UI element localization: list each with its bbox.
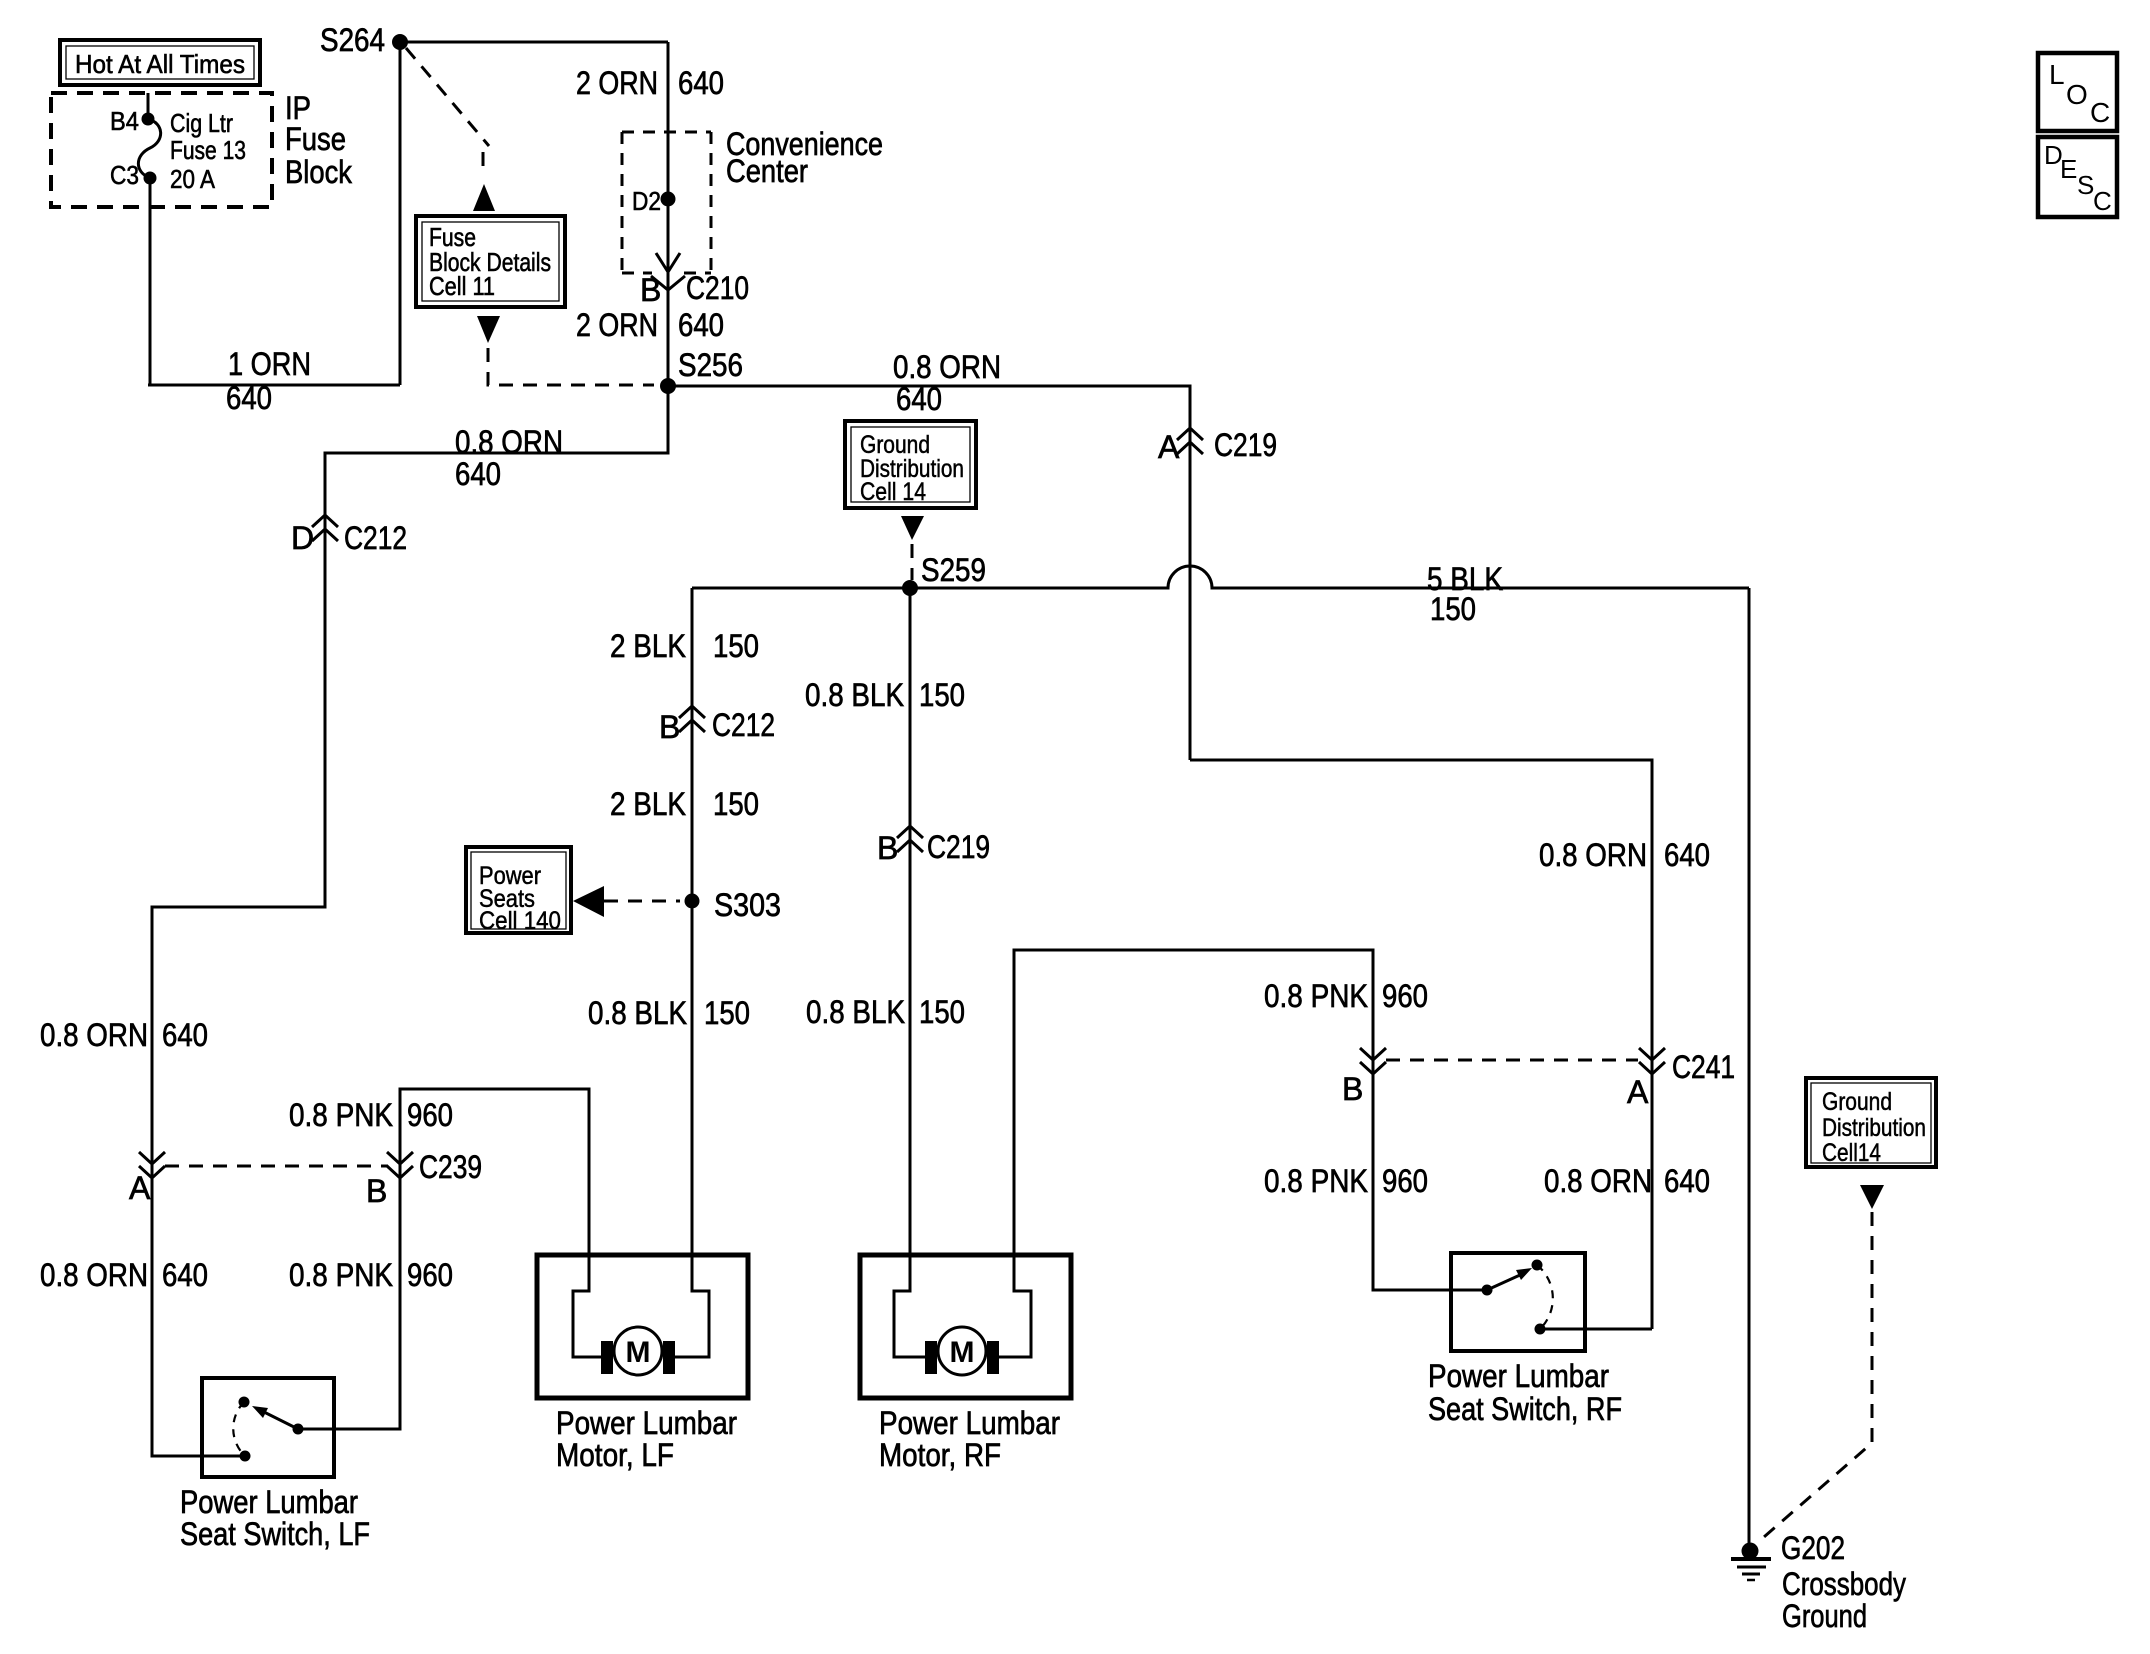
switch RF upper contact: [1532, 1260, 1543, 1271]
svg-text:Fuse 13: Fuse 13: [170, 135, 246, 165]
label Power Lumbar Motor, LF: [556, 1405, 737, 1473]
wire 1 ORN 640 horizontal run: [148, 384, 400, 387]
svg-text:C219: C219: [927, 829, 990, 865]
svg-text:960: 960: [407, 1097, 453, 1133]
label 0.8 ORN 640 (below C241 A): [1544, 1163, 1710, 1199]
svg-text:0.8 ORN: 0.8 ORN: [40, 1017, 148, 1053]
svg-text:Power Lumbar: Power Lumbar: [556, 1405, 737, 1441]
wire 0.8 BLK from S259 down to C219 B: [909, 588, 912, 854]
Power Lumbar Motor RF box: [860, 1255, 1071, 1398]
svg-text:B: B: [877, 830, 898, 866]
label B C219: [877, 829, 990, 866]
LOC legend box: [2038, 53, 2117, 131]
DESC legend box: [2038, 137, 2117, 217]
fuse F13 value label: Cig Ltr Fuse 13 20 A: [170, 108, 246, 194]
svg-text:150: 150: [704, 995, 750, 1031]
dashed reference from S264 toward Fuse Block Details: [406, 48, 489, 146]
svg-text:0.8 ORN: 0.8 ORN: [40, 1257, 148, 1293]
svg-text:B: B: [1342, 1071, 1363, 1107]
connector C241 cavity A chevrons: [1639, 1048, 1665, 1074]
wire 5 BLK 150 with hop over C219 drop: [692, 566, 1749, 588]
wire S264 to top of 2 ORN drop: [400, 41, 668, 44]
motor RF armature circle M: [938, 1327, 986, 1375]
svg-text:Fuse: Fuse: [285, 121, 346, 157]
node C3: [144, 172, 157, 185]
svg-text:0.8 PNK: 0.8 PNK: [1264, 978, 1368, 1014]
svg-text:M: M: [950, 1336, 975, 1369]
svg-text:640: 640: [678, 65, 724, 101]
svg-text:D2: D2: [632, 186, 661, 216]
motor LF right lead bracket: [675, 1255, 709, 1357]
Ground Distribution Cell14 box (right): [1806, 1078, 1936, 1167]
svg-text:0.8 ORN: 0.8 ORN: [1539, 837, 1647, 873]
wire up to S264: [399, 42, 402, 385]
svg-text:C212: C212: [712, 707, 775, 743]
switch LF lower contact: [240, 1451, 251, 1462]
svg-text:C241: C241: [1672, 1049, 1735, 1085]
Ground Distribution Cell 14 box: [845, 421, 976, 508]
fuse F13 element (S-curve): [138, 119, 160, 178]
svg-text:150: 150: [713, 786, 759, 822]
dashed reference to G202: [1757, 1212, 1872, 1543]
node S256: [660, 378, 676, 394]
svg-text:150: 150: [1430, 591, 1476, 627]
switch RF dashed throw arc: [1537, 1265, 1553, 1329]
svg-text:S259: S259: [921, 552, 986, 588]
wire 0.8 ORN below C239 A to switch LF: [152, 1152, 245, 1456]
wire from C3 down to 1 ORN run: [149, 178, 152, 385]
svg-text:640: 640: [226, 380, 272, 416]
arrow down from Ground Distribution Cell14: [1860, 1185, 1884, 1209]
wire from C212 D down, left, down to C239 A: [152, 543, 325, 1178]
label 0.8 PNK 960 (lower right): [1264, 1163, 1428, 1199]
dashed reference from S303 to Power Seats box: [604, 900, 680, 903]
label 2 ORN 640 (lower): [576, 307, 724, 343]
svg-text:B4: B4: [110, 106, 139, 136]
svg-text:150: 150: [919, 994, 965, 1030]
node S264: [392, 34, 408, 50]
arrow left into Power Seats box: [573, 886, 604, 917]
svg-text:S256: S256: [678, 347, 743, 383]
switch LF common terminal: [293, 1424, 304, 1435]
svg-text:640: 640: [896, 381, 942, 417]
svg-text:2 BLK: 2 BLK: [610, 628, 686, 664]
connector C241 cavity B chevrons: [1360, 1048, 1386, 1074]
svg-text:Cig Ltr: Cig Ltr: [170, 108, 233, 138]
svg-text:C219: C219: [1214, 427, 1277, 463]
svg-text:Motor, RF: Motor, RF: [879, 1437, 1001, 1473]
node S303: [685, 894, 700, 909]
ground symbol G202: [1731, 1559, 1771, 1580]
connector C219 cavity B chevrons: [897, 826, 923, 852]
svg-text:Cell14: Cell14: [1822, 1139, 1881, 1167]
label 2 BLK 150 (upper): [610, 628, 759, 664]
svg-text:640: 640: [162, 1257, 208, 1293]
svg-text:960: 960: [1382, 978, 1428, 1014]
wire from fuse block top edge to pin B4: [147, 93, 150, 119]
svg-text:G202: G202: [1781, 1530, 1845, 1566]
label 2 BLK 150 (lower): [610, 786, 759, 822]
Convenience Center dashed box: [622, 132, 711, 273]
svg-text:Cell 140: Cell 140: [479, 907, 561, 935]
connector C210 male arrow: [656, 253, 680, 272]
label 0.8 ORN 640 (S256 to C219): [893, 349, 1001, 417]
svg-text:0.8 BLK: 0.8 BLK: [588, 995, 687, 1031]
label A C219: [1158, 427, 1277, 465]
node B4: [142, 113, 155, 126]
wire 0.8 ORN below C241 A to switch RF: [1540, 1328, 1652, 1331]
svg-text:960: 960: [1382, 1163, 1428, 1199]
wire 0.8 PNK from motor RF up and right to C241 B: [1014, 950, 1373, 1255]
arrow down from Ground Distribution box: [901, 516, 924, 540]
svg-text:640: 640: [1664, 1163, 1710, 1199]
svg-text:Cell 14: Cell 14: [860, 478, 926, 506]
dashed connector line C241: [1386, 1059, 1638, 1062]
switch RF lever arrow: [1487, 1268, 1532, 1290]
label Power Lumbar Seat Switch, RF: [1428, 1358, 1622, 1427]
IP Fuse Block label: [285, 90, 353, 190]
motor RF left lead bracket: [894, 1255, 925, 1357]
motor LF right brush: [663, 1341, 675, 1374]
connector C239 cavity A chevrons: [139, 1152, 165, 1178]
motor RF right brush: [987, 1341, 999, 1374]
svg-text:150: 150: [919, 677, 965, 713]
Power Lumbar Seat Switch RF box: [1451, 1253, 1585, 1351]
svg-text:20 A: 20 A: [170, 164, 216, 194]
svg-text:0.8 BLK: 0.8 BLK: [806, 994, 905, 1030]
motor LF left lead bracket: [573, 1255, 601, 1357]
wire 2 BLK from S259 corner down to C212 B: [691, 588, 694, 734]
svg-text:E: E: [2060, 154, 2077, 184]
label B C212: [659, 707, 775, 745]
label 0.8 BLK 150 (motor RF drop): [806, 994, 965, 1030]
dashed connector line C239: [165, 1165, 388, 1168]
label 0.8 ORN 640 (right drop): [1539, 837, 1710, 873]
svg-text:640: 640: [162, 1017, 208, 1053]
motor LF armature circle M: [614, 1327, 662, 1375]
node S259: [902, 580, 918, 596]
svg-text:B: B: [366, 1173, 387, 1209]
label 0.8 ORN 640 (left run lower): [40, 1257, 208, 1293]
Fuse Block Details Cell 11 box: [416, 216, 565, 307]
wire from S256 down-left to C212: [325, 386, 668, 543]
node D2: [661, 192, 676, 207]
dashed reference from Fuse Block Details to S256: [488, 348, 654, 385]
switch RF common terminal: [1482, 1285, 1493, 1296]
svg-text:640: 640: [678, 307, 724, 343]
wire 0.8 PNK from C239 B up and right to motor LF: [400, 1089, 589, 1255]
svg-text:S303: S303: [714, 887, 781, 923]
Power Seats Cell 140 box: [466, 847, 571, 935]
label D C212: [291, 520, 407, 556]
svg-text:Cell 11: Cell 11: [429, 271, 495, 301]
svg-text:Power Lumbar: Power Lumbar: [879, 1405, 1060, 1441]
svg-text:0.8 PNK: 0.8 PNK: [289, 1097, 393, 1133]
wire 0.8 PNK below C239 B to switch LF: [298, 1152, 400, 1429]
svg-text:Power Lumbar: Power Lumbar: [1428, 1358, 1609, 1394]
svg-text:0.8 BLK: 0.8 BLK: [805, 677, 904, 713]
connector C239 cavity B chevrons: [387, 1152, 413, 1178]
connector C212 cavity D chevrons: [312, 515, 338, 541]
svg-text:2 BLK: 2 BLK: [610, 786, 686, 822]
Convenience Center label: [726, 126, 883, 189]
node G202: [1742, 1543, 1759, 1560]
svg-text:150: 150: [713, 628, 759, 664]
label Power Lumbar Seat Switch, LF: [180, 1484, 370, 1552]
svg-text:Crossbody: Crossbody: [1782, 1566, 1906, 1602]
IP Fuse Block dashed box: [51, 93, 272, 207]
arrow up into S264 reference: [473, 184, 495, 211]
svg-text:2 ORN: 2 ORN: [576, 65, 658, 101]
svg-text:A: A: [129, 1170, 151, 1206]
label 1 ORN 640: [226, 346, 311, 416]
svg-text:S264: S264: [320, 22, 385, 58]
arrow down out of Fuse Block Details: [477, 316, 500, 343]
switch LF lever arrow: [252, 1406, 298, 1429]
wire 2 ORN 640 vertical drop: [667, 42, 670, 386]
label 0.8 PNK 960 (upper right): [1264, 978, 1428, 1014]
connector C212 cavity B chevrons: [679, 706, 705, 732]
svg-text:Seat Switch, RF: Seat Switch, RF: [1428, 1391, 1622, 1427]
Power Lumbar Motor LF box: [537, 1255, 748, 1398]
label 0.8 PNK 960 (upper left): [289, 1097, 453, 1133]
svg-text:Motor, LF: Motor, LF: [556, 1437, 674, 1473]
switch LF dashed throw arc: [233, 1402, 245, 1456]
svg-text:B: B: [659, 709, 680, 745]
svg-text:1 ORN: 1 ORN: [228, 346, 311, 382]
label 5 BLK 150: [1427, 561, 1503, 627]
svg-text:C212: C212: [344, 520, 407, 556]
svg-text:Seat Switch, LF: Seat Switch, LF: [180, 1516, 370, 1552]
connector C210 female Y: [651, 276, 685, 303]
switch LF upper contact: [239, 1397, 250, 1408]
svg-text:A: A: [1627, 1074, 1649, 1110]
svg-text:960: 960: [407, 1257, 453, 1293]
motor RF right lead bracket: [999, 1255, 1031, 1357]
Hot At All Times banner box: [60, 40, 260, 85]
connector C219 cavity A chevrons: [1177, 428, 1203, 454]
svg-text:C210: C210: [686, 270, 749, 306]
label Power Lumbar Motor, RF: [879, 1405, 1060, 1473]
svg-text:Power Lumbar: Power Lumbar: [180, 1484, 358, 1520]
svg-text:C239: C239: [419, 1149, 482, 1185]
svg-text:640: 640: [1664, 837, 1710, 873]
svg-text:C: C: [2090, 97, 2110, 128]
svg-text:Ground: Ground: [1822, 1088, 1892, 1116]
svg-text:C: C: [2093, 186, 2112, 216]
svg-text:S: S: [2077, 170, 2094, 200]
label 0.8 ORN 640 (S256 to C212): [455, 424, 563, 492]
label B C210: [640, 270, 749, 308]
label 0.8 BLK 150 (motor LF drop): [588, 995, 750, 1031]
svg-text:C3: C3: [110, 160, 139, 190]
svg-text:A: A: [1158, 429, 1180, 465]
svg-text:Block: Block: [285, 154, 353, 190]
svg-text:Distribution: Distribution: [1822, 1114, 1926, 1142]
label 0.8 PNK 960 (lower left): [289, 1257, 453, 1293]
wire 0.8 PNK below C241 B to switch RF: [1373, 1074, 1487, 1290]
svg-text:D: D: [291, 520, 314, 556]
svg-text:Ground: Ground: [1782, 1598, 1867, 1634]
motor LF left brush: [601, 1341, 613, 1374]
svg-text:0.8 ORN: 0.8 ORN: [893, 349, 1001, 385]
switch RF lower contact: [1535, 1324, 1546, 1335]
svg-text:640: 640: [455, 456, 501, 492]
svg-text:Hot At All Times: Hot At All Times: [75, 49, 245, 79]
Power Lumbar Seat Switch LF box: [202, 1378, 334, 1477]
svg-text:2 ORN: 2 ORN: [576, 307, 658, 343]
svg-text:M: M: [626, 1336, 651, 1369]
wire below C219 down and right to 0.8 ORN drop: [1190, 760, 1652, 1329]
label G202 Crossbody Ground: [1781, 1530, 1906, 1634]
wire below C219 B to motor RF: [909, 854, 912, 1255]
label 2 ORN 640 (upper): [576, 65, 724, 101]
svg-text:B: B: [640, 272, 661, 308]
svg-text:L: L: [2049, 59, 2065, 90]
svg-text:0.8 ORN: 0.8 ORN: [1544, 1163, 1652, 1199]
svg-text:Center: Center: [726, 153, 808, 189]
label 0.8 ORN 640 (left run upper): [40, 1017, 208, 1053]
motor RF left brush: [925, 1341, 937, 1374]
wire 5 BLK down to G202: [1748, 588, 1751, 1551]
wire 2 BLK below C212 B through S303 to motor LF: [691, 734, 694, 1255]
dashed reference vertical segment: [482, 152, 485, 174]
svg-text:0.8 PNK: 0.8 PNK: [289, 1257, 393, 1293]
dashed reference to S259: [911, 544, 914, 580]
label 0.8 BLK 150 (above C219 B): [805, 677, 965, 713]
svg-text:0.8 PNK: 0.8 PNK: [1264, 1163, 1368, 1199]
svg-text:O: O: [2066, 79, 2088, 110]
svg-text:0.8 ORN: 0.8 ORN: [455, 424, 563, 460]
wire 0.8 ORN 640 from S256 to C219: [668, 386, 1190, 760]
